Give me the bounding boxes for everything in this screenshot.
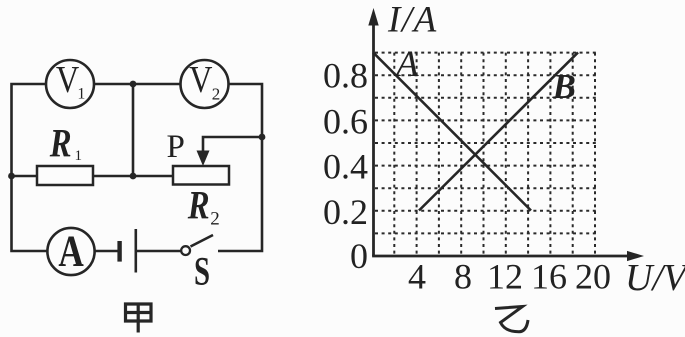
battery: short thick plate xyxy=(117,241,121,262)
svg-text:0.2: 0.2 xyxy=(323,192,368,232)
label 甲 (drawn strokes) xyxy=(126,303,152,333)
svg-text:R: R xyxy=(187,182,210,227)
svg-text:8: 8 xyxy=(454,257,472,297)
label 乙 (drawn strokes) xyxy=(495,307,528,332)
svg-text:4: 4 xyxy=(408,257,426,297)
grid: horizontal dotted lines 0.1-0.9 xyxy=(375,53,597,234)
label R1 xyxy=(49,120,82,165)
rheostat wiper arrowhead xyxy=(197,151,210,167)
wire: V2 to top-right corner, right rail down to switch xyxy=(218,84,262,251)
svg-text:0.4: 0.4 xyxy=(323,147,368,187)
y-axis arrowhead xyxy=(368,8,378,26)
line B (ascending I-U characteristic) xyxy=(419,52,578,210)
rheostat R2 xyxy=(173,166,229,185)
wire: left rail with top and bottom corners xyxy=(12,84,49,251)
line A (descending I-U characteristic) xyxy=(373,52,531,210)
switch S pivot circle xyxy=(181,246,190,255)
svg-text:1: 1 xyxy=(77,86,85,103)
wire: ammeter to battery xyxy=(94,250,118,253)
svg-text:V: V xyxy=(56,59,80,101)
svg-text:0.8: 0.8 xyxy=(323,56,368,96)
svg-text:I/A: I/A xyxy=(387,0,438,41)
node: junction of V1-V2 wire and middle rail xyxy=(130,81,137,88)
wire: left rail to resistor R1 xyxy=(12,175,38,178)
svg-text:12: 12 xyxy=(487,257,523,297)
svg-text:S: S xyxy=(194,249,210,294)
svg-text:0.6: 0.6 xyxy=(323,102,368,142)
grid: vertical dotted lines 2-20 V xyxy=(394,53,595,255)
svg-text:P: P xyxy=(167,129,185,165)
ammeter A xyxy=(47,226,94,276)
wire: battery to switch xyxy=(137,250,181,253)
svg-text:16: 16 xyxy=(531,257,567,297)
x-axis arrowhead xyxy=(627,251,644,261)
svg-text:2: 2 xyxy=(212,85,221,104)
x-axis (U axis) xyxy=(372,255,629,258)
svg-text:A: A xyxy=(393,44,419,85)
resistor R1 xyxy=(37,166,93,185)
wire: middle rail from V1-V2 node down to R1 row xyxy=(132,84,135,176)
svg-text:U/V: U/V xyxy=(625,257,685,299)
wire: V1 to V2 xyxy=(94,83,182,86)
svg-text:1: 1 xyxy=(75,148,83,164)
svg-text:V: V xyxy=(189,59,213,101)
svg-text:R: R xyxy=(49,120,72,165)
node: right rail at wiper arm xyxy=(259,134,266,141)
voltmeter V2 xyxy=(181,59,229,108)
svg-text:A: A xyxy=(58,226,84,276)
svg-text:0: 0 xyxy=(350,236,368,276)
battery: long thin plate xyxy=(135,229,138,273)
svg-text:20: 20 xyxy=(575,257,611,297)
wire: rheostat wiper arm to right rail xyxy=(203,137,262,152)
svg-text:2: 2 xyxy=(210,208,220,229)
svg-text:B: B xyxy=(552,67,576,106)
y-axis (I axis) xyxy=(372,23,375,256)
node: left rail at R1 row xyxy=(8,173,15,180)
voltmeter V1 xyxy=(46,59,94,108)
wire: R1 to middle node to R2 xyxy=(93,175,173,178)
node: middle rail at R1 row xyxy=(130,173,137,180)
label R2 xyxy=(187,182,220,229)
switch lever xyxy=(191,235,214,247)
